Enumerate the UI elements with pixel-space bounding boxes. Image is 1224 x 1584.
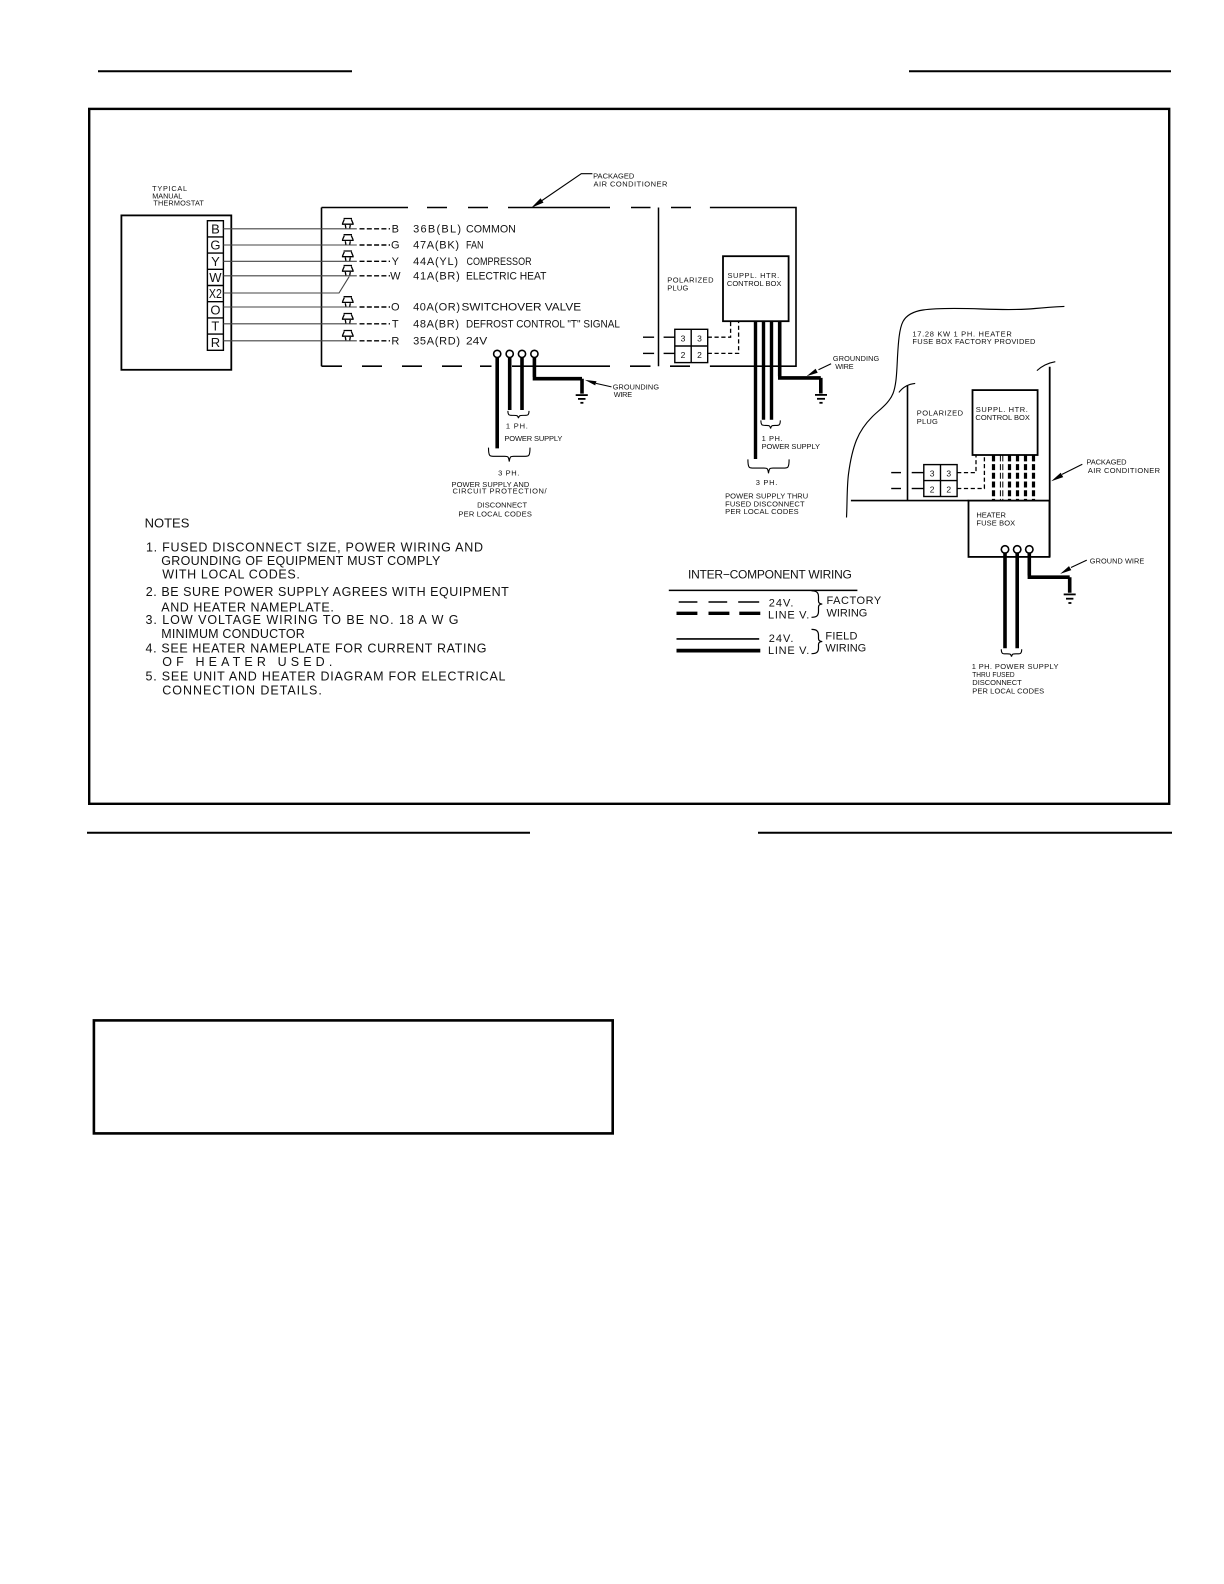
wire W (thermostat to unit) xyxy=(223,275,356,277)
dashed lead Y xyxy=(360,260,391,262)
svg-text:FAN: FAN xyxy=(466,240,484,252)
svg-text:24V.: 24V. xyxy=(769,597,794,609)
svg-text:AIR CONDITIONER: AIR CONDITIONER xyxy=(594,180,668,189)
polarized plug P1 (3/2 connector) xyxy=(675,329,708,362)
svg-text:3 PH.: 3 PH. xyxy=(498,469,519,478)
power wire 1 (3 ph leg) xyxy=(495,358,499,449)
svg-text:24V.: 24V. xyxy=(769,633,794,645)
svg-text:WITH LOCAL CODES.: WITH LOCAL CODES. xyxy=(162,568,299,582)
quick-connect terminal O xyxy=(342,297,354,307)
svg-text:POWER SUPPLY: POWER SUPPLY xyxy=(762,442,820,451)
fuse box terminals (3 circles) xyxy=(1001,546,1033,553)
svg-text:X2: X2 xyxy=(209,286,222,301)
svg-text:OF HEATER USED.: OF HEATER USED. xyxy=(162,655,332,669)
node R xyxy=(391,335,399,347)
label: PACKAGED AIR CONDITIONER (heater diagram callout) xyxy=(1051,457,1160,481)
svg-text:Y: Y xyxy=(211,254,220,269)
svg-text:47A(BK): 47A(BK) xyxy=(413,240,459,252)
svg-text:PER LOCAL CODES: PER LOCAL CODES xyxy=(972,686,1044,695)
svg-text:Y: Y xyxy=(392,256,400,268)
factory wiring bundle (thick dashed) control box U2 to heater fuse box xyxy=(994,455,1034,500)
svg-text:GROUNDING OF EQUIPMENT MUST CO: GROUNDING OF EQUIPMENT MUST COMPLY xyxy=(161,554,441,568)
svg-text:B: B xyxy=(211,221,220,236)
power wire 2 xyxy=(508,358,512,410)
factory wiring (dashed) plug P1 to control box U1 pin 3 xyxy=(708,322,731,337)
packaged air conditioner enclosure (dashed boundary) xyxy=(322,208,797,367)
svg-text:WIRING: WIRING xyxy=(827,607,868,619)
svg-text:1. FUSED DISCONNECT SIZE, POWE: 1. FUSED DISCONNECT SIZE, POWER WIRING A… xyxy=(146,540,483,554)
field wire L3 from control box U1 xyxy=(770,321,773,420)
svg-text:FUSE BOX FACTORY PROVIDED: FUSE BOX FACTORY PROVIDED xyxy=(912,337,1036,346)
svg-text:T: T xyxy=(392,318,399,330)
label: 1 PH. POWER SUPPLY (control box feed) xyxy=(762,434,820,451)
label SWITCHOVER VALVE xyxy=(462,302,582,314)
unit outline sweep curve (heater section boundary) xyxy=(847,306,1065,517)
label: POLARIZED PLUG xyxy=(667,276,714,293)
svg-text:DEFROST CONTROL "T" SIGNAL: DEFROST CONTROL "T" SIGNAL xyxy=(466,318,620,330)
node W xyxy=(390,270,401,282)
legend brace (factory) xyxy=(812,591,823,618)
svg-text:FIELD: FIELD xyxy=(825,630,857,642)
dashed lead G xyxy=(360,244,391,246)
svg-text:3. LOW VOLTAGE WIRING TO BE NO: 3. LOW VOLTAGE WIRING TO BE NO. 18 A W G xyxy=(146,613,459,627)
value label 41A(BR) xyxy=(413,270,460,282)
label COMPRESSOR xyxy=(467,256,532,268)
svg-text:O: O xyxy=(391,302,400,314)
brace: 1 ph power supply (diagram 1) xyxy=(508,411,529,418)
dashed lead O xyxy=(360,306,391,308)
svg-text:40A(OR): 40A(OR) xyxy=(413,302,460,314)
label FAN xyxy=(466,240,484,252)
value label 36B(BL) xyxy=(413,223,461,235)
node B xyxy=(392,223,399,235)
svg-text:R: R xyxy=(391,335,399,347)
grounding wire from control box U1 xyxy=(778,321,821,393)
svg-text:DISCONNECT: DISCONNECT xyxy=(477,500,527,509)
svg-text:W: W xyxy=(390,270,401,282)
svg-text:MINIMUM CONDUCTOR: MINIMUM CONDUCTOR xyxy=(161,627,304,641)
plug P2 pigtail stubs and dashes xyxy=(891,473,924,489)
label 24V xyxy=(466,335,488,347)
svg-text:R: R xyxy=(211,335,220,350)
svg-text:2: 2 xyxy=(946,484,951,494)
legend labels: 24V. LINE V. (field) xyxy=(768,633,809,657)
legend: INTER-COMPONENT WIRING xyxy=(669,568,858,591)
svg-text:W: W xyxy=(209,270,222,285)
ground symbol (control box ground) xyxy=(815,395,827,403)
label: 3 PH. POWER SUPPLY AND CIRCUIT PROTECTION / DISCONNECT PER LOCAL CODES xyxy=(452,469,548,519)
svg-text:2. BE SURE POWER SUPPLY AGREES: 2. BE SURE POWER SUPPLY AGREES WITH EQUI… xyxy=(146,585,509,599)
svg-text:LINE V.: LINE V. xyxy=(768,609,809,621)
factory wiring (dashed) plug P2 to control box U2 pin 2 xyxy=(957,455,984,488)
brace: 1 ph power supply (control box feed) xyxy=(761,420,780,428)
svg-text:48A(BR): 48A(BR) xyxy=(413,318,459,330)
legend: FACTORY WIRING xyxy=(827,595,882,619)
label: GROUNDING WIRE (control box ground) xyxy=(807,354,880,376)
legend brace (field) xyxy=(812,629,823,653)
svg-text:FUSE BOX: FUSE BOX xyxy=(976,519,1015,528)
label ELECTRIC HEAT xyxy=(466,270,547,282)
label COMMON xyxy=(466,223,516,235)
brace: 3 ph power supply (diagram 1) xyxy=(489,448,531,462)
svg-text:COMPRESSOR: COMPRESSOR xyxy=(467,256,532,268)
quick-connect terminal Y xyxy=(342,251,354,261)
value label 35A(RD) xyxy=(413,335,460,347)
svg-text:3: 3 xyxy=(930,468,935,478)
legend: line V field wiring (thick solid) xyxy=(677,649,761,653)
svg-text:3: 3 xyxy=(946,468,951,478)
factory wiring (dashed) plug P2 to control box U2 pin 3 xyxy=(957,455,976,472)
quick-connect terminal W xyxy=(342,266,354,276)
heater section right boundary line with break tick xyxy=(1037,362,1055,557)
quick-connect terminal B xyxy=(342,219,354,229)
node Y xyxy=(392,256,400,268)
svg-text:3: 3 xyxy=(697,333,702,343)
label: 17.28 KW 1 PH. HEATER FUSE BOX FACTORY PROVIDED xyxy=(912,329,1036,346)
legend labels: 24V. LINE V. (factory) xyxy=(768,597,809,621)
svg-text:G: G xyxy=(391,240,400,252)
svg-text:G: G xyxy=(210,238,220,253)
power wire 1 (fuse box feed) xyxy=(1003,553,1007,648)
svg-text:AIR CONDITIONER: AIR CONDITIONER xyxy=(1088,466,1161,475)
svg-text:5. SEE UNIT AND HEATER DIAGRAM: 5. SEE UNIT AND HEATER DIAGRAM FOR ELECT… xyxy=(146,670,506,684)
quick-connect terminal T xyxy=(342,314,354,324)
svg-text:LINE V.: LINE V. xyxy=(768,645,809,657)
power wire 3 xyxy=(520,358,524,410)
ground symbol (unit ground) xyxy=(576,395,588,403)
brace: 3 ph power supply thru fused disconnect xyxy=(748,459,789,473)
svg-text:POWER SUPPLY: POWER SUPPLY xyxy=(504,434,562,443)
svg-text:41A(BR): 41A(BR) xyxy=(413,270,460,282)
svg-text:O: O xyxy=(210,302,220,317)
line voltage terminals (4 circles) xyxy=(494,350,538,357)
value label 40A(OR) xyxy=(413,302,460,314)
svg-text:GROUND WIRE: GROUND WIRE xyxy=(1090,557,1145,566)
label: PACKAGED AIR CONDITIONER (callout with leader arrow) xyxy=(531,171,668,207)
legend: FIELD WIRING xyxy=(825,630,866,654)
value label 48A(BR) xyxy=(413,318,459,330)
value label 47A(BK) xyxy=(413,240,459,252)
ground wire (fuse box) xyxy=(1028,553,1070,593)
svg-text:PER LOCAL CODES: PER LOCAL CODES xyxy=(725,507,799,516)
brace: 1 ph power supply (fuse box) xyxy=(1001,649,1021,656)
quick-connect terminal R xyxy=(342,331,354,341)
wire Y (thermostat to unit) xyxy=(223,260,356,262)
label DEFROST CONTROL &quot;T&quot; SIGNAL xyxy=(466,318,620,330)
svg-text:2: 2 xyxy=(930,484,935,494)
legend: 24V field wiring (thin solid) xyxy=(677,638,760,640)
node T xyxy=(392,318,399,330)
svg-text:THERMOSTAT: THERMOSTAT xyxy=(153,199,204,208)
dashed lead W xyxy=(360,275,391,277)
polarized plug divider line xyxy=(658,208,660,367)
svg-text:CONTROL BOX: CONTROL BOX xyxy=(727,279,782,288)
label: POLARIZED PLUG (heater) xyxy=(917,409,964,426)
label: GROUND WIRE xyxy=(1060,557,1144,574)
value label 44A(YL) xyxy=(413,256,458,268)
wire T (thermostat to unit) xyxy=(223,323,356,325)
label: 3 PH. POWER SUPPLY THRU FUSED DISCONNECT PER LOCAL CODES xyxy=(725,478,808,516)
svg-text:CONTROL BOX: CONTROL BOX xyxy=(975,413,1030,422)
svg-text:4. SEE HEATER NAMEPLATE FOR CU: 4. SEE HEATER NAMEPLATE FOR CURRENT RATI… xyxy=(146,642,487,656)
legend: line V factory wiring (thick dashed) xyxy=(677,612,761,615)
svg-text:36B(BL): 36B(BL) xyxy=(413,223,461,235)
svg-text:WIRING: WIRING xyxy=(825,643,866,655)
control box U2: SUPPL. HTR. CONTROL BOX xyxy=(973,390,1038,455)
svg-text:COMMON: COMMON xyxy=(466,223,516,235)
svg-text:WIRE: WIRE xyxy=(835,362,854,371)
control box U1: SUPPL. HTR. CONTROL BOX xyxy=(723,256,789,321)
svg-text:1 PH.: 1 PH. xyxy=(506,421,528,430)
legend: 24V factory wiring (thin dashed) xyxy=(679,601,760,603)
svg-text:PLUG: PLUG xyxy=(917,417,938,426)
svg-text:FACTORY: FACTORY xyxy=(827,595,882,607)
svg-text:PLUG: PLUG xyxy=(667,284,688,293)
svg-text:WIRE: WIRE xyxy=(614,390,633,399)
dashed lead R xyxy=(360,340,391,342)
svg-text:2: 2 xyxy=(697,350,702,360)
svg-text:44A(YL): 44A(YL) xyxy=(413,256,458,268)
grounding wire (unit ground) xyxy=(533,358,582,394)
node G xyxy=(391,240,400,252)
heater section bottom boundary xyxy=(851,500,969,502)
svg-text:PER LOCAL CODES: PER LOCAL CODES xyxy=(458,510,532,519)
notes text xyxy=(145,516,510,698)
svg-text:INTER−COMPONENT WIRING: INTER−COMPONENT WIRING xyxy=(688,568,852,582)
svg-text:SWITCHOVER VALVE: SWITCHOVER VALVE xyxy=(462,302,582,314)
svg-text:3: 3 xyxy=(681,333,686,343)
wire B (thermostat to unit) xyxy=(223,228,356,230)
wire X2 (joins W terminal) xyxy=(223,277,349,293)
svg-text:2: 2 xyxy=(681,350,686,360)
svg-text:CONNECTION DETAILS.: CONNECTION DETAILS. xyxy=(162,683,321,697)
node O xyxy=(391,302,400,314)
thermostat terminal strip xyxy=(207,221,223,351)
plug P1 pigtail stubs and dashes xyxy=(643,337,675,353)
label: GROUNDING WIRE (unit ground) xyxy=(585,380,659,399)
svg-text:CIRCUIT PROTECTION/: CIRCUIT PROTECTION/ xyxy=(453,486,548,495)
wire O (thermostat to unit) xyxy=(223,306,356,308)
field wire L1 from control box U1 xyxy=(754,321,757,459)
heater fuse box xyxy=(969,501,1050,557)
svg-text:B: B xyxy=(392,223,399,235)
svg-text:T: T xyxy=(211,319,219,334)
svg-text:ELECTRIC HEAT: ELECTRIC HEAT xyxy=(466,270,547,282)
polarized plug P2 (3/2 connector) xyxy=(924,465,957,497)
ground symbol (fuse box ground) xyxy=(1064,594,1076,603)
svg-text:24V: 24V xyxy=(466,335,488,347)
quick-connect terminal G xyxy=(342,235,354,245)
dashed lead B xyxy=(360,228,391,230)
wire R (thermostat to unit) xyxy=(223,340,356,342)
field wire L2 from control box U1 xyxy=(762,321,765,420)
heater section left boundary line with break tick xyxy=(899,383,915,500)
label: 1 PH. POWER SUPPLY THRU FUSED DISCONNECT PER LOCAL CODES xyxy=(972,662,1059,696)
power wire 2 (fuse box feed) xyxy=(1015,553,1019,648)
label: 1 PH. POWER SUPPLY (diagram 1) xyxy=(504,421,562,443)
wire G (thermostat to unit) xyxy=(223,244,356,246)
svg-text:NOTES: NOTES xyxy=(145,516,190,531)
factory wiring (dashed) plug P1 to control box U1 pin 2 xyxy=(708,322,739,354)
dashed lead T xyxy=(360,323,391,325)
svg-text:35A(RD): 35A(RD) xyxy=(413,335,460,347)
thermostat (typical manual thermostat) xyxy=(121,184,231,370)
svg-text:3 PH.: 3 PH. xyxy=(756,478,778,487)
